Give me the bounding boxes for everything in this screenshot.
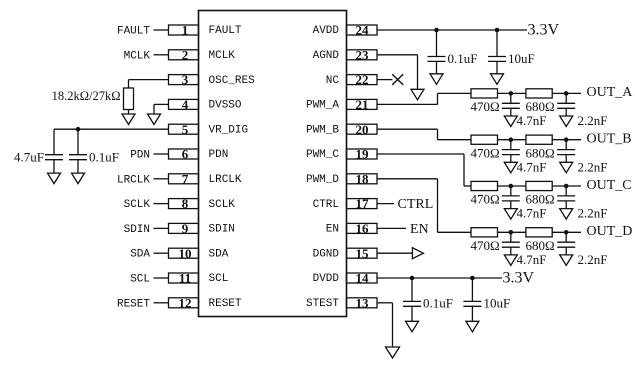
node junction AVDD cap1 bbox=[434, 28, 439, 33]
wire pin 19 PWM_C to filter bbox=[377, 153, 464, 155]
svg-text:17: 17 bbox=[356, 196, 370, 211]
svg-text:8: 8 bbox=[182, 196, 189, 211]
capacitor 10uF (DVDD) bbox=[471, 278, 473, 301]
capacitor 0.1uF (VR_DIG) bbox=[77, 129, 79, 155]
node junction DVDD cap1 bbox=[410, 276, 415, 281]
svg-text:4.7nF: 4.7nF bbox=[517, 206, 547, 221]
svg-text:OSC_RES: OSC_RES bbox=[209, 75, 256, 87]
svg-text:2.2nF: 2.2nF bbox=[578, 159, 608, 174]
resistor 680Ω (OUT_A) bbox=[526, 89, 552, 98]
pin 7 box bbox=[169, 174, 199, 184]
wire PDN to pin 6 bbox=[154, 153, 169, 155]
pin 20 box bbox=[347, 124, 378, 134]
node junction on VR_DIG wire bbox=[76, 127, 81, 132]
svg-text:6: 6 bbox=[182, 147, 189, 162]
capacitor 2.2nF (OUT_C) bbox=[565, 186, 567, 196]
svg-text:680Ω: 680Ω bbox=[526, 99, 555, 114]
svg-text:2.2nF: 2.2nF bbox=[578, 252, 608, 267]
svg-text:14: 14 bbox=[356, 271, 370, 286]
svg-text:19: 19 bbox=[356, 147, 370, 162]
capacitor 2.2nF (OUT_B) bbox=[565, 140, 567, 150]
pin 23 box bbox=[347, 50, 378, 60]
svg-text:0.1uF: 0.1uF bbox=[89, 150, 119, 165]
svg-text:PDN: PDN bbox=[130, 150, 150, 162]
svg-text:SDIN: SDIN bbox=[209, 224, 235, 236]
svg-text:3: 3 bbox=[182, 72, 189, 87]
resistor 470Ω (OUT_D) bbox=[471, 228, 498, 237]
svg-text:PWM_C: PWM_C bbox=[306, 149, 339, 161]
wire between resistors OUT_D bbox=[498, 231, 526, 233]
svg-text:5: 5 bbox=[182, 122, 189, 137]
wire SDIN to pin 9 bbox=[154, 227, 169, 229]
wire pin 21 PWM_A to filter bbox=[377, 103, 438, 105]
resistor 680Ω (OUT_D) bbox=[526, 228, 552, 237]
svg-text:LRCLK: LRCLK bbox=[209, 174, 242, 186]
ground pin 4 bbox=[148, 114, 161, 125]
svg-text:12: 12 bbox=[179, 295, 192, 310]
svg-text:OUT_C: OUT_C bbox=[587, 178, 632, 193]
wire SDA to pin 10 bbox=[154, 252, 169, 254]
svg-text:4: 4 bbox=[182, 97, 189, 112]
svg-text:FAULT: FAULT bbox=[117, 26, 150, 38]
pin 13 box bbox=[347, 298, 378, 308]
svg-text:DGND: DGND bbox=[313, 248, 340, 260]
ground AGND bbox=[411, 89, 424, 100]
svg-text:SCL: SCL bbox=[130, 274, 150, 286]
svg-text:PWM_D: PWM_D bbox=[306, 174, 339, 186]
svg-text:680Ω: 680Ω bbox=[526, 192, 555, 207]
svg-text:MCLK: MCLK bbox=[124, 50, 151, 62]
svg-text:23: 23 bbox=[356, 47, 370, 62]
pin 24 box bbox=[347, 25, 378, 35]
svg-text:0.1uF: 0.1uF bbox=[423, 296, 453, 311]
svg-text:4.7nF: 4.7nF bbox=[517, 113, 547, 128]
svg-text:SCL: SCL bbox=[209, 273, 229, 285]
svg-text:4.7nF: 4.7nF bbox=[517, 159, 547, 174]
wire MCLK to pin 2 bbox=[154, 54, 169, 56]
pin 6 box bbox=[169, 149, 199, 159]
wire between resistors OUT_B bbox=[498, 139, 526, 141]
svg-text:SDA: SDA bbox=[209, 248, 229, 260]
wire between resistors OUT_C bbox=[498, 185, 526, 187]
wire pin 16 EN stub bbox=[377, 227, 406, 229]
svg-text:SDA: SDA bbox=[130, 249, 150, 261]
svg-text:CTRL: CTRL bbox=[313, 199, 339, 211]
svg-text:DVSSO: DVSSO bbox=[209, 100, 242, 112]
svg-text:22: 22 bbox=[356, 72, 369, 87]
svg-text:SCLK: SCLK bbox=[124, 199, 151, 211]
svg-text:NC: NC bbox=[326, 75, 340, 87]
capacitor 4.7nF (OUT_C) bbox=[510, 186, 512, 196]
svg-text:470Ω: 470Ω bbox=[471, 145, 500, 160]
capacitor 2.2nF (OUT_A) bbox=[565, 93, 567, 103]
svg-text:2: 2 bbox=[182, 47, 189, 62]
svg-text:3.3V: 3.3V bbox=[503, 269, 535, 286]
svg-text:7: 7 bbox=[182, 171, 189, 186]
wire pin 13 STEST to ground bbox=[377, 302, 393, 304]
svg-text:20: 20 bbox=[356, 122, 369, 137]
wire pin 15 DGND to ground bbox=[377, 252, 412, 254]
wire SCL to pin 11 bbox=[154, 277, 169, 279]
pin 11 box bbox=[169, 273, 199, 283]
svg-text:470Ω: 470Ω bbox=[471, 238, 500, 253]
node junction 2 OUT_B bbox=[564, 137, 569, 142]
wire FAULT to pin 1 bbox=[154, 29, 169, 31]
svg-text:3.3V: 3.3V bbox=[528, 21, 560, 38]
capacitor 4.7nF (OUT_D) bbox=[510, 232, 512, 242]
pin 12 box bbox=[169, 298, 199, 308]
svg-text:STEST: STEST bbox=[306, 298, 339, 310]
ground STEST bbox=[386, 347, 400, 358]
pin 17 box bbox=[347, 199, 378, 209]
capacitor 2.2nF (OUT_D) bbox=[565, 232, 567, 242]
pin 18 box bbox=[347, 174, 378, 184]
wire pin 23 AGND to ground bbox=[377, 54, 418, 56]
node junction 1 OUT_B bbox=[509, 137, 514, 142]
node junction 1 OUT_C bbox=[509, 184, 514, 189]
svg-text:SCLK: SCLK bbox=[209, 199, 236, 211]
pin 1 box bbox=[169, 25, 199, 35]
pin 9 box bbox=[169, 223, 199, 233]
svg-text:1: 1 bbox=[182, 23, 189, 38]
node junction 1 OUT_A bbox=[509, 91, 514, 96]
resistor 470Ω (OUT_C) bbox=[471, 181, 498, 190]
pin 22 box bbox=[347, 75, 378, 85]
wire pin 17 CTRL stub bbox=[377, 203, 394, 205]
resistor 18.2kohm/27kohm bbox=[124, 88, 134, 110]
svg-text:21: 21 bbox=[356, 97, 369, 112]
pin 10 box bbox=[169, 248, 199, 258]
svg-text:470Ω: 470Ω bbox=[471, 99, 500, 114]
wire pin 22 NC stub bbox=[377, 79, 392, 81]
svg-text:EN: EN bbox=[326, 224, 339, 236]
wire to OUT_C bbox=[552, 185, 581, 187]
svg-text:PDN: PDN bbox=[209, 149, 229, 161]
pin 14 box bbox=[347, 273, 378, 283]
wire between resistors OUT_A bbox=[498, 92, 526, 94]
svg-text:4.7uF: 4.7uF bbox=[14, 150, 44, 165]
pin 5 box bbox=[169, 124, 199, 134]
svg-text:MCLK: MCLK bbox=[209, 50, 236, 62]
wire pin 24 AVDD to 3.3V bbox=[377, 29, 527, 31]
pin 15 box bbox=[347, 248, 378, 258]
svg-text:VR_DIG: VR_DIG bbox=[209, 124, 249, 136]
svg-text:0.1uF: 0.1uF bbox=[448, 51, 478, 66]
svg-text:470Ω: 470Ω bbox=[471, 192, 500, 207]
svg-text:AVDD: AVDD bbox=[313, 25, 340, 37]
no-connect X mark pin 22 bbox=[392, 74, 403, 85]
wire pin 5 VR_DIG to capacitors bbox=[54, 128, 169, 130]
svg-text:SDIN: SDIN bbox=[124, 224, 150, 236]
svg-text:FAULT: FAULT bbox=[209, 25, 242, 37]
node junction 2 OUT_A bbox=[564, 91, 569, 96]
svg-text:OUT_A: OUT_A bbox=[587, 85, 634, 100]
svg-text:18.2kΩ/27kΩ: 18.2kΩ/27kΩ bbox=[52, 89, 121, 103]
svg-text:RESET: RESET bbox=[209, 298, 242, 310]
svg-text:10uF: 10uF bbox=[484, 296, 511, 311]
node junction 2 OUT_C bbox=[564, 184, 569, 189]
capacitor 4.7nF (OUT_B) bbox=[510, 140, 512, 150]
resistor 680Ω (OUT_C) bbox=[526, 181, 552, 190]
svg-text:AGND: AGND bbox=[313, 50, 340, 62]
pin 21 box bbox=[347, 99, 378, 109]
wire pin 20 PWM_B to filter bbox=[377, 128, 438, 130]
wire pin 3 to resistor bbox=[129, 79, 169, 81]
wire pin 18 PWM_D to filter bbox=[377, 178, 438, 180]
pin 2 box bbox=[169, 50, 199, 60]
svg-text:10uF: 10uF bbox=[508, 51, 535, 66]
pin 19 box bbox=[347, 149, 378, 159]
node junction DVDD cap2 bbox=[470, 276, 475, 281]
capacitor 10uF (AVDD) bbox=[496, 30, 498, 57]
svg-text:2.2nF: 2.2nF bbox=[578, 206, 608, 221]
pin 3 box bbox=[169, 75, 199, 85]
svg-text:13: 13 bbox=[356, 295, 370, 310]
wire pin 14 DVDD to 3.3V bbox=[377, 277, 502, 279]
svg-text:CTRL: CTRL bbox=[398, 197, 434, 212]
resistor 470Ω (OUT_A) bbox=[471, 89, 498, 98]
svg-text:DVDD: DVDD bbox=[313, 273, 340, 285]
svg-text:OUT_D: OUT_D bbox=[587, 224, 633, 239]
node junction 1 OUT_D bbox=[509, 230, 514, 235]
pin 16 box bbox=[347, 223, 378, 233]
svg-text:18: 18 bbox=[356, 171, 370, 186]
pin 4 box bbox=[169, 99, 199, 109]
wire LRCLK to pin 7 bbox=[154, 178, 169, 180]
wire to OUT_A bbox=[552, 92, 581, 94]
svg-text:680Ω: 680Ω bbox=[526, 145, 555, 160]
capacitor 0.1uF (AVDD) bbox=[436, 30, 438, 57]
op-amp U1 IC body bbox=[199, 11, 347, 317]
svg-text:16: 16 bbox=[356, 221, 370, 236]
svg-text:RESET: RESET bbox=[117, 298, 150, 310]
wire pin 4 DVSSO to ground bbox=[154, 103, 169, 105]
svg-text:2.2nF: 2.2nF bbox=[578, 113, 608, 128]
svg-text:PWM_A: PWM_A bbox=[306, 100, 339, 112]
svg-text:LRCLK: LRCLK bbox=[117, 174, 150, 186]
svg-text:15: 15 bbox=[356, 246, 370, 261]
wire RESET to pin 12 bbox=[154, 302, 169, 304]
resistor 470Ω (OUT_B) bbox=[471, 135, 498, 144]
wire SCLK to pin 8 bbox=[154, 203, 169, 205]
pin 8 box bbox=[169, 199, 199, 209]
svg-text:9: 9 bbox=[182, 221, 189, 236]
resistor 680Ω (OUT_B) bbox=[526, 135, 552, 144]
capacitor 0.1uF (DVDD) bbox=[411, 278, 413, 301]
ground DGND (right-pointing) bbox=[412, 248, 423, 259]
node junction AVDD cap2 bbox=[495, 28, 500, 33]
svg-text:OUT_B: OUT_B bbox=[587, 132, 632, 147]
svg-text:EN: EN bbox=[410, 222, 429, 237]
svg-text:10: 10 bbox=[179, 246, 192, 261]
svg-text:4.7nF: 4.7nF bbox=[517, 252, 547, 267]
svg-text:PWM_B: PWM_B bbox=[306, 124, 339, 136]
ground below resistor bbox=[122, 114, 135, 125]
svg-text:680Ω: 680Ω bbox=[526, 238, 555, 253]
capacitor 4.7nF (OUT_A) bbox=[510, 93, 512, 103]
capacitor 4.7uF bbox=[53, 129, 55, 155]
wire resistor to ground bbox=[128, 110, 130, 115]
svg-text:24: 24 bbox=[356, 23, 370, 38]
node junction 2 OUT_D bbox=[564, 230, 569, 235]
wire to OUT_B bbox=[552, 139, 581, 141]
wire to OUT_D bbox=[552, 231, 581, 233]
svg-text:11: 11 bbox=[179, 271, 191, 286]
